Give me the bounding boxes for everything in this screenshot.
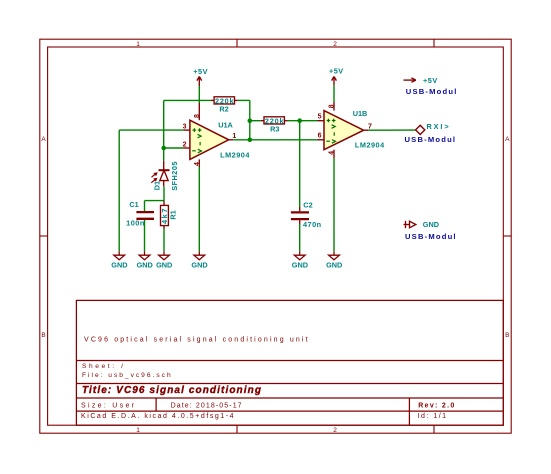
arrow symbol +5V module <box>404 78 416 82</box>
wire output U1A to junction <box>233 139 250 141</box>
svg-text:B: B <box>41 332 45 339</box>
ground symbol 6 (U1B pin4) <box>329 251 340 259</box>
svg-text:RXI>: RXI> <box>427 122 451 131</box>
svg-text:100n: 100n <box>126 219 145 228</box>
pin 4 U1A <box>198 159 200 167</box>
light arrow 1 <box>152 173 157 177</box>
svg-text:GND: GND <box>326 261 342 270</box>
wire pin4 U1A to GND <box>198 167 200 251</box>
svg-text:C2: C2 <box>303 200 312 209</box>
pin 3 U1A <box>183 129 190 131</box>
svg-text:+5V: +5V <box>329 66 344 75</box>
wire +5V to pin8 U1B <box>333 85 335 102</box>
node RXI diamond <box>416 125 425 134</box>
pin 1 U1A output <box>229 139 234 141</box>
svg-text:8: 8 <box>329 104 336 108</box>
svg-text:USB-Modul: USB-Modul <box>405 232 457 241</box>
wire C1 top stem <box>144 201 146 211</box>
svg-text:GND: GND <box>137 261 153 270</box>
svg-text:Rev: 2.0: Rev: 2.0 <box>418 403 455 410</box>
svg-text:R2: R2 <box>219 105 228 114</box>
wire feedback top horizontal (left part) <box>164 99 211 101</box>
svg-text:C1: C1 <box>129 200 138 209</box>
wire pin4 U1B to GND <box>333 158 335 251</box>
svg-text:File: usb_vc96.sch: File: usb_vc96.sch <box>82 372 173 379</box>
wire C2 tap down <box>299 121 301 207</box>
light arrow 2 <box>151 179 156 183</box>
svg-text:4: 4 <box>329 151 336 155</box>
svg-text:GND: GND <box>111 261 127 270</box>
svg-text:LM2904: LM2904 <box>355 141 385 150</box>
svg-text:3: 3 <box>183 123 187 130</box>
pin 8 U1B <box>333 102 335 111</box>
svg-text:+5V: +5V <box>193 67 208 76</box>
ground symbol 4 (U1A pin4) <box>194 251 205 259</box>
svg-text:USB-Modul: USB-Modul <box>405 135 457 144</box>
wire R3 to pin5 U1B <box>288 120 318 122</box>
svg-text:D1: D1 <box>152 181 161 190</box>
svg-text:U1A: U1A <box>218 120 233 129</box>
pin 2 U1A <box>183 147 190 149</box>
svg-text:Id: 1/1: Id: 1/1 <box>418 413 448 420</box>
junction node pin2/D1/R2 <box>161 146 166 151</box>
svg-text:Date: 2018-05-17: Date: 2018-05-17 <box>171 403 243 410</box>
svg-text:SFH205: SFH205 <box>170 161 179 191</box>
svg-text:KiCad E.D.A. kicad 4.0.5+dfsg: KiCad E.D.A. kicad 4.0.5+dfsg1-4 <box>81 413 235 420</box>
pin 8 U1A <box>198 103 200 120</box>
resistor R3 <box>261 117 288 134</box>
wire R1 bottom to GND <box>163 229 165 251</box>
junction node C2 tap <box>297 118 302 123</box>
wire R3 left <box>250 120 261 122</box>
svg-text:GND: GND <box>423 220 439 229</box>
svg-text:R3: R3 <box>270 125 279 134</box>
svg-text:8: 8 <box>194 114 201 118</box>
wire C1 branch horizontal <box>145 200 165 202</box>
svg-text:Title: VC96 signal conditionin: Title: VC96 signal conditioning <box>82 385 262 396</box>
svg-text:VC96 optical serial signal con: VC96 optical serial signal conditioning … <box>84 337 310 344</box>
capacitor C2 <box>291 200 322 229</box>
wire diode to R1 node <box>163 186 165 200</box>
svg-text:Size: User: Size: User <box>81 403 136 410</box>
wire pin3 U1A horizontal <box>119 129 183 131</box>
svg-text:LM2904: LM2904 <box>220 151 250 160</box>
ground symbol 2 (C1) <box>139 251 150 259</box>
ground symbol 3 (R1) <box>159 251 170 259</box>
svg-text:GND: GND <box>292 261 308 270</box>
wire feedback top horizontal (right part) <box>238 99 250 101</box>
op-amp U1A <box>190 120 229 159</box>
svg-text:Sheet: /: Sheet: / <box>82 363 126 370</box>
wire output node to pin6 U1B <box>250 139 318 141</box>
wire C1 bottom to GND <box>144 220 146 252</box>
svg-text:GND: GND <box>191 261 207 270</box>
sheet border outer frame <box>40 39 511 433</box>
ground symbol 1 (pin3 net) <box>114 251 125 259</box>
wire junction to diode <box>163 148 165 161</box>
svg-text:1: 1 <box>136 41 140 48</box>
wire pin7 U1B to RXI <box>368 129 415 131</box>
wire feedback vertical right (R2 out down to output node) <box>249 100 251 139</box>
arrow symbol GND module <box>404 221 416 228</box>
junction node R3 tap <box>248 118 253 123</box>
svg-text:GND: GND <box>156 261 172 270</box>
svg-text:4: 4 <box>194 162 201 166</box>
pin 6 U1B <box>318 139 325 141</box>
power +5V symbol (U1B rail) <box>332 77 337 86</box>
capacitor C1 <box>136 212 154 219</box>
ground symbol 5 (C2) <box>294 251 305 259</box>
svg-text:USB-Modul: USB-Modul <box>406 87 458 96</box>
junction node output U1A <box>248 138 253 143</box>
wire pin2 U1A horizontal <box>164 147 184 149</box>
wire feedback vertical left <box>163 100 165 148</box>
resistor R2 <box>211 96 238 113</box>
svg-text:R1: R1 <box>169 210 178 219</box>
svg-text:1: 1 <box>136 427 140 434</box>
svg-text:B: B <box>505 332 509 339</box>
wire +5V to pin8 U1A <box>198 86 200 103</box>
svg-text:2: 2 <box>333 41 337 48</box>
pin 4 U1B <box>333 150 335 158</box>
photodiode D1 SFH205 <box>151 161 169 187</box>
svg-text:+5V: +5V <box>423 76 438 85</box>
svg-text:5: 5 <box>318 114 322 121</box>
resistor R1 <box>160 201 178 229</box>
wire pin3 down to GND <box>118 130 120 251</box>
svg-text:6: 6 <box>318 133 322 140</box>
svg-text:470n: 470n <box>303 220 322 229</box>
pin 5 U1B <box>318 120 325 122</box>
svg-text:2: 2 <box>333 427 337 434</box>
op-amp U1B <box>324 111 364 150</box>
svg-text:A: A <box>505 136 510 143</box>
power +5V symbol (U1A rail) <box>197 77 202 87</box>
svg-text:U1B: U1B <box>353 109 368 118</box>
wire C2 bottom to GND <box>299 224 301 251</box>
svg-text:2: 2 <box>183 142 187 149</box>
pin 7 U1B output <box>364 129 369 131</box>
svg-text:A: A <box>41 136 46 143</box>
title block frame <box>76 300 503 425</box>
